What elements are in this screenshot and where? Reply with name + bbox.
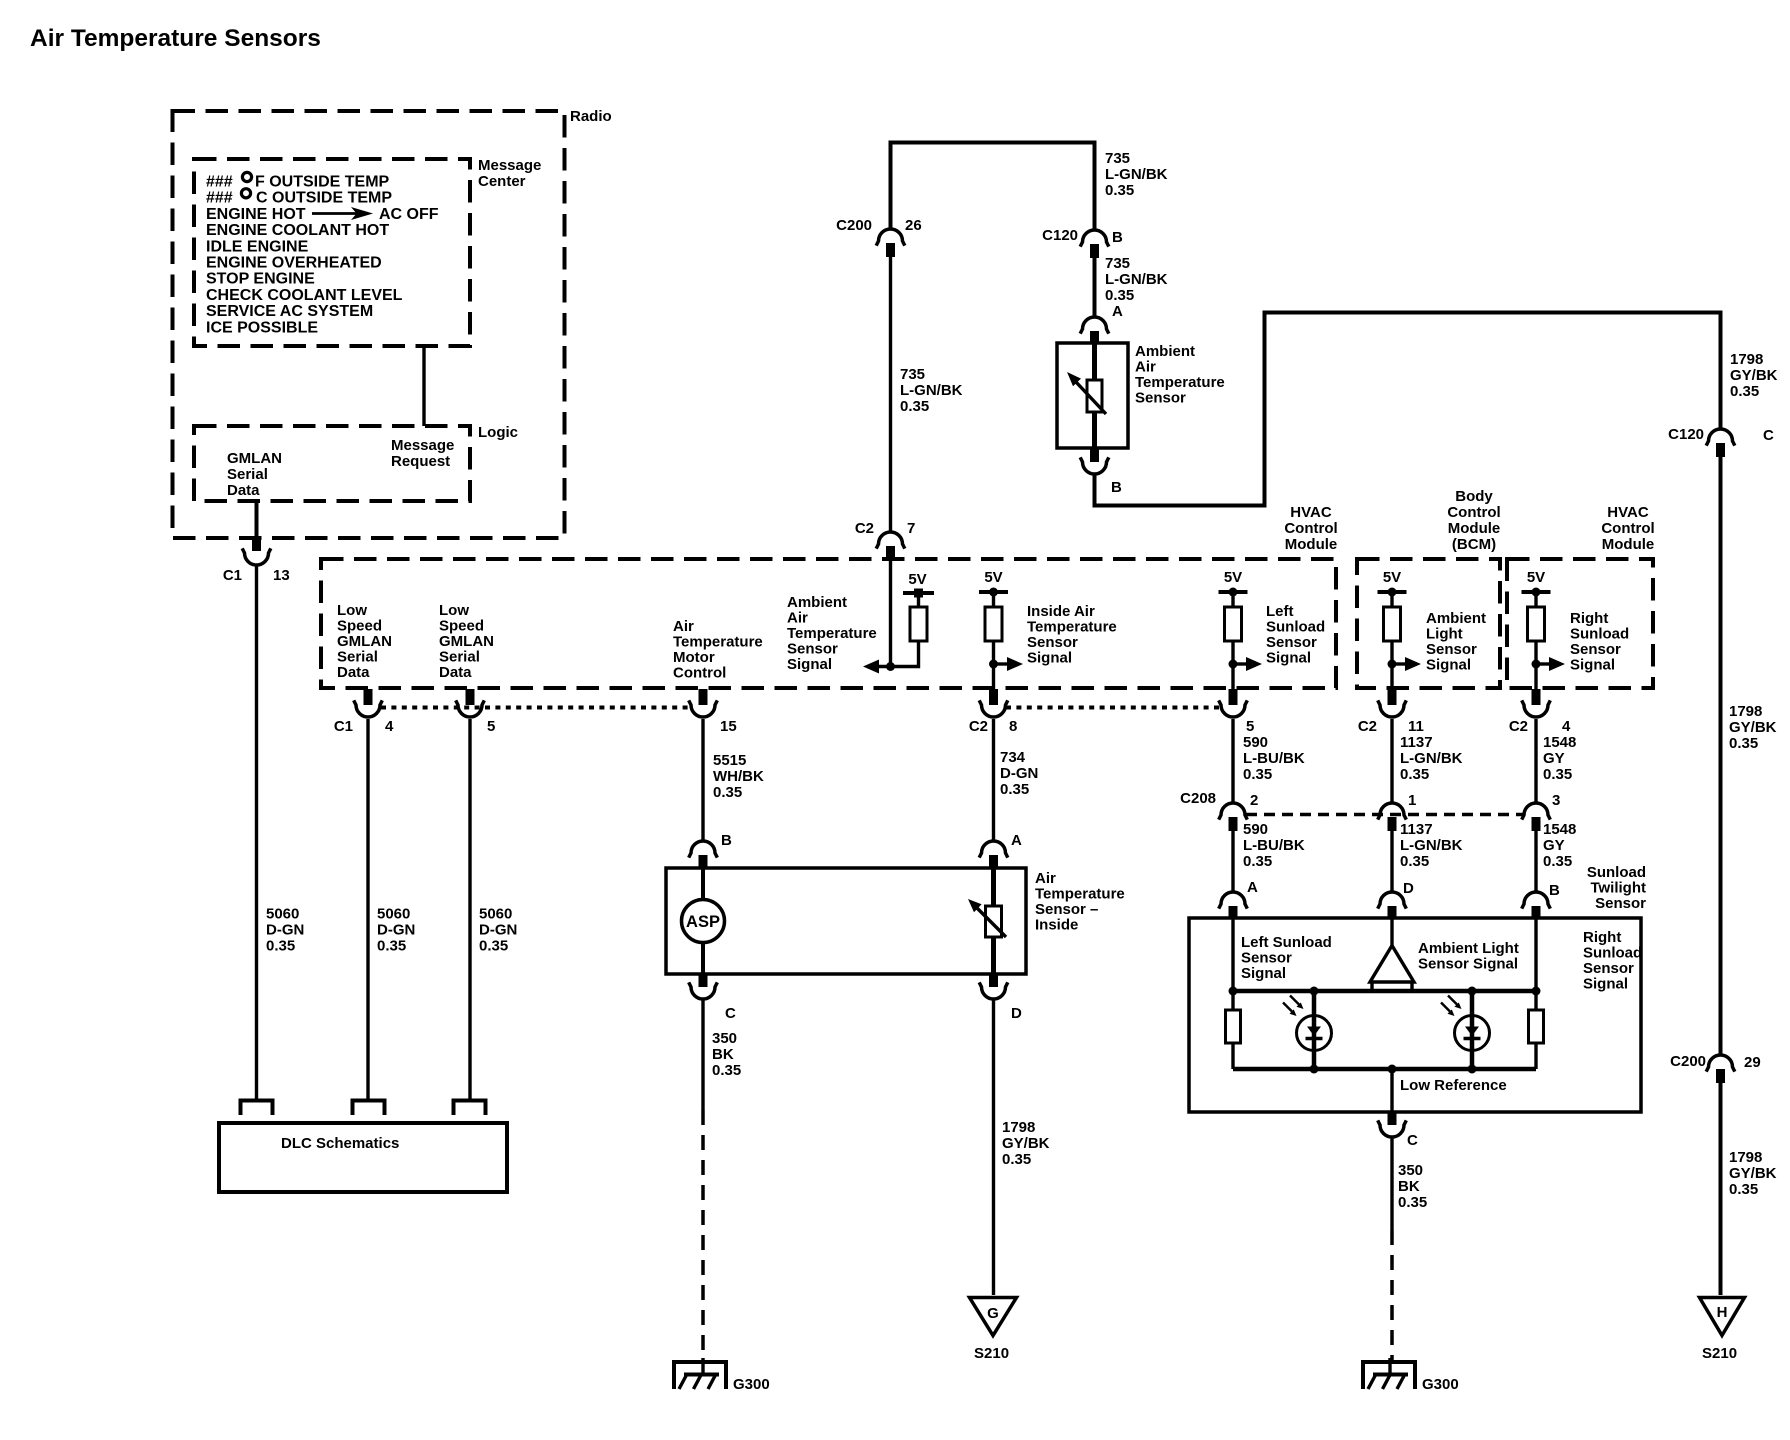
svg-text:5V: 5V (1224, 569, 1242, 586)
svg-text:C200: C200 (1670, 1053, 1706, 1070)
svg-text:G300: G300 (733, 1376, 770, 1393)
svg-text:ASP: ASP (686, 913, 720, 931)
connector pin 5 (C208 side) (1229, 689, 1238, 705)
wire down to C120/B (1093, 141, 1097, 230)
wire message center to logic (422, 346, 425, 426)
junction node ambient signal (886, 662, 895, 671)
svg-text:B: B (1111, 479, 1122, 496)
junction node ambient light signal with arrow (1388, 660, 1397, 669)
svg-text:26: 26 (905, 217, 922, 234)
wire pin 11 to C208 pin 1 (1390, 719, 1393, 802)
svg-text:15: 15 (720, 718, 737, 735)
svg-text:5: 5 (487, 718, 495, 735)
connector C1 pin 13 (252, 537, 261, 551)
body control module box (1357, 559, 1500, 688)
wire C200/26 to C2/7 (889, 257, 892, 531)
svg-text:D: D (1011, 1005, 1022, 1022)
svg-text:G: G (987, 1305, 999, 1322)
svg-text:GMLAN: GMLAN (227, 450, 282, 467)
svg-text:4: 4 (385, 718, 394, 735)
wire C120/B to pin A (1093, 258, 1097, 316)
wire C208/2 to sunload A (1231, 831, 1234, 891)
wire ambient sensor B to C120/C routing (1095, 313, 1721, 506)
resistor pull-up left sunload (1225, 607, 1242, 641)
svg-text:Ambient LightSensor Signal: Ambient LightSensor Signal (1418, 940, 1519, 973)
connector C1 pin 5 (466, 689, 475, 705)
svg-text:Center: Center (478, 173, 526, 190)
DLC terminal 1 (241, 1101, 273, 1116)
svg-text:C: C (1763, 427, 1774, 444)
svg-text:5: 5 (1246, 718, 1254, 735)
ground G300 (701, 1358, 704, 1376)
svg-text:C120: C120 (1042, 227, 1078, 244)
wires inside ASP box (701, 868, 705, 900)
radio module box (173, 111, 565, 538)
svg-text:C208: C208 (1180, 790, 1216, 807)
wire C2 pin 8 to inside air sensor (992, 719, 995, 840)
wire C200/29 to splice S210 (1719, 1083, 1723, 1295)
sunload twilight sensor box (1189, 918, 1641, 1112)
wire C1/13 to DLC (255, 566, 258, 1102)
message center box (194, 159, 470, 346)
svg-text:Logic: Logic (478, 424, 518, 441)
thermistor element inside ambient sensor (1092, 343, 1097, 448)
wire C208/3 to sunload B (1534, 831, 1537, 891)
svg-text:DLC Schematics: DLC Schematics (281, 1135, 399, 1152)
resistor pull-up inside air temp (985, 607, 1002, 641)
svg-text:2: 2 (1250, 792, 1258, 809)
wire C to ground (solid) (1390, 1138, 1393, 1230)
photodiode right sunload (1470, 991, 1475, 1069)
wire C to ground (solid part) (701, 1000, 704, 1110)
wire C2/7 into HVAC module (889, 560, 892, 667)
svg-text:C: C (725, 1005, 736, 1022)
svg-text:3: 3 (1552, 792, 1560, 809)
air temperature sensor inside element (991, 868, 996, 974)
svg-text:5V: 5V (908, 571, 926, 588)
svg-text:B: B (721, 832, 732, 849)
wire C to ground (dashed part) (701, 1110, 705, 1360)
svg-text:1: 1 (1408, 792, 1416, 809)
svg-text:HVACControlModule: HVACControlModule (1601, 504, 1654, 553)
wire pin 5 to C208 pin 2 (1231, 719, 1234, 802)
wire C120/C down right side (1719, 457, 1723, 1054)
svg-text:A: A (1247, 879, 1258, 896)
svg-text:AC OFF: AC OFF (379, 206, 439, 223)
svg-text:29: 29 (1744, 1054, 1761, 1071)
junction node right sunload signal with arrow (1532, 660, 1541, 669)
svg-text:Radio: Radio (570, 108, 612, 125)
C208 harness dashed link (1246, 813, 1523, 817)
connector pin C below ASP (699, 974, 708, 987)
svg-text:B: B (1549, 882, 1560, 899)
HVAC control module box right (1507, 559, 1653, 688)
ground G300 right (1388, 1358, 1391, 1376)
wire pin 4 to C208 pin 3 (1534, 719, 1537, 802)
svg-text:C2: C2 (1358, 718, 1377, 735)
svg-text:HVACControlModule: HVACControlModule (1284, 504, 1337, 553)
connector C2 pin 8 (989, 689, 998, 705)
svg-text:A: A (1112, 303, 1123, 320)
svg-text:A: A (1011, 832, 1022, 849)
svg-text:C1: C1 (334, 718, 353, 735)
svg-text:B: B (1112, 229, 1123, 246)
connector C2 pin 4 (1532, 689, 1541, 705)
svg-text:ENGINE HOT: ENGINE HOT (206, 206, 306, 223)
svg-text:STOP ENGINE: STOP ENGINE (206, 271, 315, 288)
svg-text:5V: 5V (984, 569, 1002, 586)
wire down to C200/26 (889, 141, 893, 229)
wire B into box (1534, 918, 1537, 991)
svg-text:C2: C2 (1509, 718, 1528, 735)
wire C to ground (dashed) (1390, 1230, 1394, 1360)
svg-text:F OUTSIDE TEMP: F OUTSIDE TEMP (255, 174, 390, 191)
svg-text:5V: 5V (1527, 569, 1545, 586)
connector C1 pin 4 (364, 689, 373, 705)
svg-text:SERVICE AC SYSTEM: SERVICE AC SYSTEM (206, 303, 373, 320)
logic box (194, 426, 470, 501)
svg-text:Request: Request (391, 453, 450, 470)
wire pin 15 to ASP motor (701, 719, 704, 840)
svg-text:C120: C120 (1668, 426, 1704, 443)
connector C2 pin 11 (1388, 689, 1397, 705)
wire C208/1 to sunload D (1390, 831, 1393, 891)
svg-text:11: 11 (1408, 718, 1424, 735)
resistor left sunload (1231, 991, 1234, 1010)
splice S210 G (970, 1298, 1017, 1336)
svg-text:###: ### (206, 190, 233, 207)
wire A into box (1231, 918, 1234, 991)
svg-text:###: ### (206, 174, 233, 191)
resistor pull-up ambient light (1384, 607, 1401, 641)
C1 harness dotted link (381, 706, 688, 710)
svg-text:IDLE ENGINE: IDLE ENGINE (206, 238, 309, 255)
DLC terminal 2 (353, 1101, 385, 1116)
svg-text:8: 8 (1009, 718, 1017, 735)
wire pin 5 to DLC (468, 719, 471, 1102)
ASP motor box (666, 868, 1026, 974)
svg-text:SunloadTwilightSensor: SunloadTwilightSensor (1587, 864, 1646, 912)
junction node left sunload signal with arrow (1229, 660, 1238, 669)
svg-text:5V: 5V (1383, 569, 1401, 586)
connector pin C sunload sensor (1388, 1112, 1397, 1125)
svg-text:S210: S210 (1702, 1345, 1737, 1362)
svg-text:C1: C1 (223, 567, 242, 584)
resistor pull-up right sunload (1528, 607, 1545, 641)
svg-text:H: H (1717, 1304, 1728, 1321)
bottom rail wire (low reference) (1233, 1067, 1536, 1072)
svg-text:Data: Data (227, 482, 260, 499)
buffer amplifier triangle (1370, 946, 1414, 983)
photodiode left sunload (1312, 991, 1317, 1069)
resistor right sunload (1534, 991, 1537, 1010)
svg-text:D: D (1403, 880, 1414, 897)
svg-text:ENGINE COOLANT HOT: ENGINE COOLANT HOT (206, 222, 389, 239)
svg-text:Message: Message (478, 157, 541, 174)
HVAC control module box (321, 559, 1336, 688)
svg-text:Air Temperature Sensors: Air Temperature Sensors (30, 25, 321, 52)
svg-text:S210: S210 (974, 1345, 1009, 1362)
top rail wire (1233, 989, 1536, 994)
svg-text:ENGINE OVERHEATED: ENGINE OVERHEATED (206, 255, 382, 272)
wire low reference down (1390, 1069, 1393, 1112)
svg-text:BodyControlModule(BCM): BodyControlModule(BCM) (1447, 488, 1500, 553)
svg-text:4: 4 (1562, 718, 1571, 735)
connector pin D below inside air sensor (989, 974, 998, 987)
svg-text:C2: C2 (969, 718, 988, 735)
svg-text:Message: Message (391, 437, 454, 454)
ambient air temperature sensor box (1057, 343, 1128, 448)
wire D to splice S210 (992, 1000, 995, 1295)
arrow to AC OFF (312, 212, 357, 215)
svg-text:13: 13 (273, 567, 290, 584)
svg-text:ICE POSSIBLE: ICE POSSIBLE (206, 319, 318, 336)
svg-text:C2: C2 (855, 520, 874, 537)
svg-text:Serial: Serial (227, 466, 268, 483)
svg-text:C OUTSIDE TEMP: C OUTSIDE TEMP (256, 190, 392, 207)
top bus wire radio to ambient sensor (891, 141, 1095, 145)
connector pin B below ambient sensor (1090, 448, 1099, 462)
junction node inside air signal with arrow (989, 660, 998, 669)
svg-text:CHECK COOLANT LEVEL: CHECK COOLANT LEVEL (206, 287, 403, 304)
resistor pull-up ambient air temp (910, 607, 927, 641)
wire pin 4 to DLC (366, 719, 369, 1102)
DLC terminal 3 (454, 1101, 486, 1116)
C2 harness dotted link (1006, 706, 1221, 710)
svg-text:G300: G300 (1422, 1376, 1459, 1393)
svg-text:7: 7 (907, 520, 915, 537)
wire D into box to buffer (1390, 918, 1393, 947)
svg-text:C: C (1407, 1132, 1418, 1149)
svg-text:Low Reference: Low Reference (1400, 1077, 1507, 1094)
splice S210 H (1700, 1298, 1745, 1336)
svg-text:C200: C200 (836, 217, 872, 234)
wire logic to C1 connector (255, 501, 259, 537)
DLC schematics box (219, 1123, 507, 1192)
ASP motor (682, 900, 725, 943)
connector C1 pin 15 (699, 689, 708, 705)
